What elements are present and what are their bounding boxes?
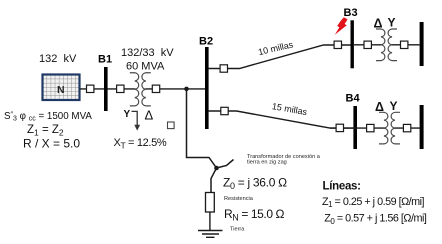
svg-text:Z0 = 0.57 + j 1.56 [Ω/mi]: Z0 = 0.57 + j 1.56 [Ω/mi] xyxy=(324,213,427,226)
svg-text:60 MVA: 60 MVA xyxy=(126,61,165,73)
svg-text:132 kV: 132 kV xyxy=(39,53,77,65)
svg-text:S″3 φ cc = 1500 MVA: S″3 φ cc = 1500 MVA xyxy=(4,111,92,123)
svg-text:Z1 = 0.25 + j 0.59 [Ω/mi]: Z1 = 0.25 + j 0.59 [Ω/mi] xyxy=(322,196,425,209)
svg-text:Y: Y xyxy=(388,16,396,30)
svg-text:R / X = 5.0: R / X = 5.0 xyxy=(23,137,80,151)
svg-text:tierra en zig zag: tierra en zig zag xyxy=(247,160,287,166)
svg-text:Δ: Δ xyxy=(375,100,384,114)
svg-text:Tierra: Tierra xyxy=(230,226,245,232)
svg-text:B4: B4 xyxy=(346,93,361,105)
svg-text:Y: Y xyxy=(390,99,398,113)
svg-text:Δ: Δ xyxy=(145,108,154,123)
svg-text:132/33 kV: 132/33 kV xyxy=(121,47,174,59)
svg-text:Δ: Δ xyxy=(374,16,383,30)
svg-text:B2: B2 xyxy=(199,36,213,48)
svg-text:Líneas:: Líneas: xyxy=(323,181,361,193)
svg-text:N: N xyxy=(57,84,65,96)
svg-text:Z1 = Z2: Z1 = Z2 xyxy=(27,124,64,137)
svg-text:Resistencia: Resistencia xyxy=(224,196,254,202)
svg-text:B1: B1 xyxy=(98,54,112,66)
svg-text:Y: Y xyxy=(124,109,131,120)
svg-text:B3: B3 xyxy=(344,7,358,19)
